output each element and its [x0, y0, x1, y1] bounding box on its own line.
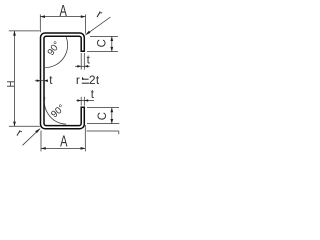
svg-text:A: A — [60, 2, 67, 19]
dimension C (bottom lip): bottom arrowhead — [110, 119, 113, 124]
dimension A (bottom): right arrowhead — [81, 147, 86, 150]
dimension A (bottom): extension lines — [41, 125, 85, 151]
thickness t (web): dimension line with outside arrows — [35, 80, 46, 82]
svg-text:2: 2 — [89, 73, 96, 87]
thickness t (bottom lip): right arrowhead — [84, 99, 88, 102]
dimension H (left): dimension line — [14, 31, 16, 126]
thickness t (bottom lip): dimension line — [76, 100, 94, 102]
svg-text:C: C — [95, 39, 108, 47]
channel cross-section outline — [41, 33, 85, 129]
bottom flange outer edge extension tick — [118, 131, 120, 134]
svg-text:H: H — [5, 81, 17, 88]
svg-text:r: r — [76, 73, 80, 87]
angle 90 deg (bottom-left): arc — [44, 97, 66, 124]
dimension H (left): extension lines — [9, 31, 40, 126]
dimension A (top): extension lines — [40, 14, 85, 33]
radius leader r (bottom-left): arrowhead at corner — [35, 128, 41, 133]
svg-text:A: A — [60, 133, 67, 150]
dimension A (top): left arrowhead — [40, 15, 45, 18]
dimension C (bottom lip): dimension line — [111, 108, 113, 124]
dimension H (left): top arrowhead — [13, 31, 16, 36]
thickness t (top lip): left arrowhead — [77, 65, 81, 68]
dimension C (top lip): dimension line — [111, 36, 113, 51]
dimension H (left): bottom arrowhead — [13, 122, 16, 127]
radius leader r (bottom-left) — [23, 129, 40, 145]
dimension C (top lip): top arrowhead — [110, 36, 113, 41]
dimension C (top lip): extension lines — [87, 36, 118, 51]
thickness t (bottom lip): left arrowhead — [77, 99, 81, 102]
thickness t (web): right arrowhead — [44, 79, 48, 82]
svg-text:C: C — [96, 112, 109, 120]
radius leader r (top-right) — [86, 17, 111, 35]
thickness t (bottom lip): extension lines — [81, 97, 84, 106]
thickness t (top lip): right arrowhead — [84, 65, 88, 68]
dimension A (top): right arrowhead — [81, 15, 86, 18]
thickness t (top lip): extension lines — [81, 53, 84, 70]
dimension C (top lip): bottom arrowhead — [110, 47, 113, 52]
dimension A (top): dimension line — [40, 16, 85, 18]
thickness t (top lip): dimension line — [75, 65, 90, 67]
bottom flange outer edge extension line — [87, 130, 119, 132]
note r = 2t : approx-equals symbol — [82, 79, 89, 83]
dimension C (bottom lip): extension lines — [87, 108, 119, 124]
dimension C (bottom lip): top arrowhead — [110, 108, 113, 113]
dimension A (bottom): dimension line — [41, 147, 85, 149]
thickness t (web): left arrowhead — [37, 79, 41, 82]
radius leader r (top-right): arrowhead at corner — [85, 31, 91, 36]
angle 90 deg (top-left): arc — [45, 37, 67, 67]
dimension A (bottom): left arrowhead — [41, 147, 46, 150]
